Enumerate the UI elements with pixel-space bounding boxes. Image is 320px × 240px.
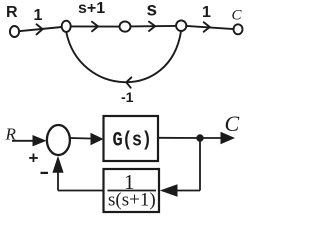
svg-text:C: C — [225, 111, 240, 136]
svg-text:G(s): G(s) — [113, 129, 152, 152]
svg-text:C: C — [232, 8, 243, 24]
svg-text:1: 1 — [34, 7, 43, 24]
svg-text:s: s — [147, 0, 158, 21]
svg-text:+: + — [29, 149, 39, 168]
svg-text:s+1: s+1 — [78, 0, 105, 17]
svg-text:-1: -1 — [121, 89, 134, 105]
svg-text:1: 1 — [202, 4, 211, 21]
svg-text:R: R — [5, 125, 17, 144]
svg-text:R: R — [6, 4, 18, 21]
svg-text:s(s+1): s(s+1) — [108, 190, 156, 211]
